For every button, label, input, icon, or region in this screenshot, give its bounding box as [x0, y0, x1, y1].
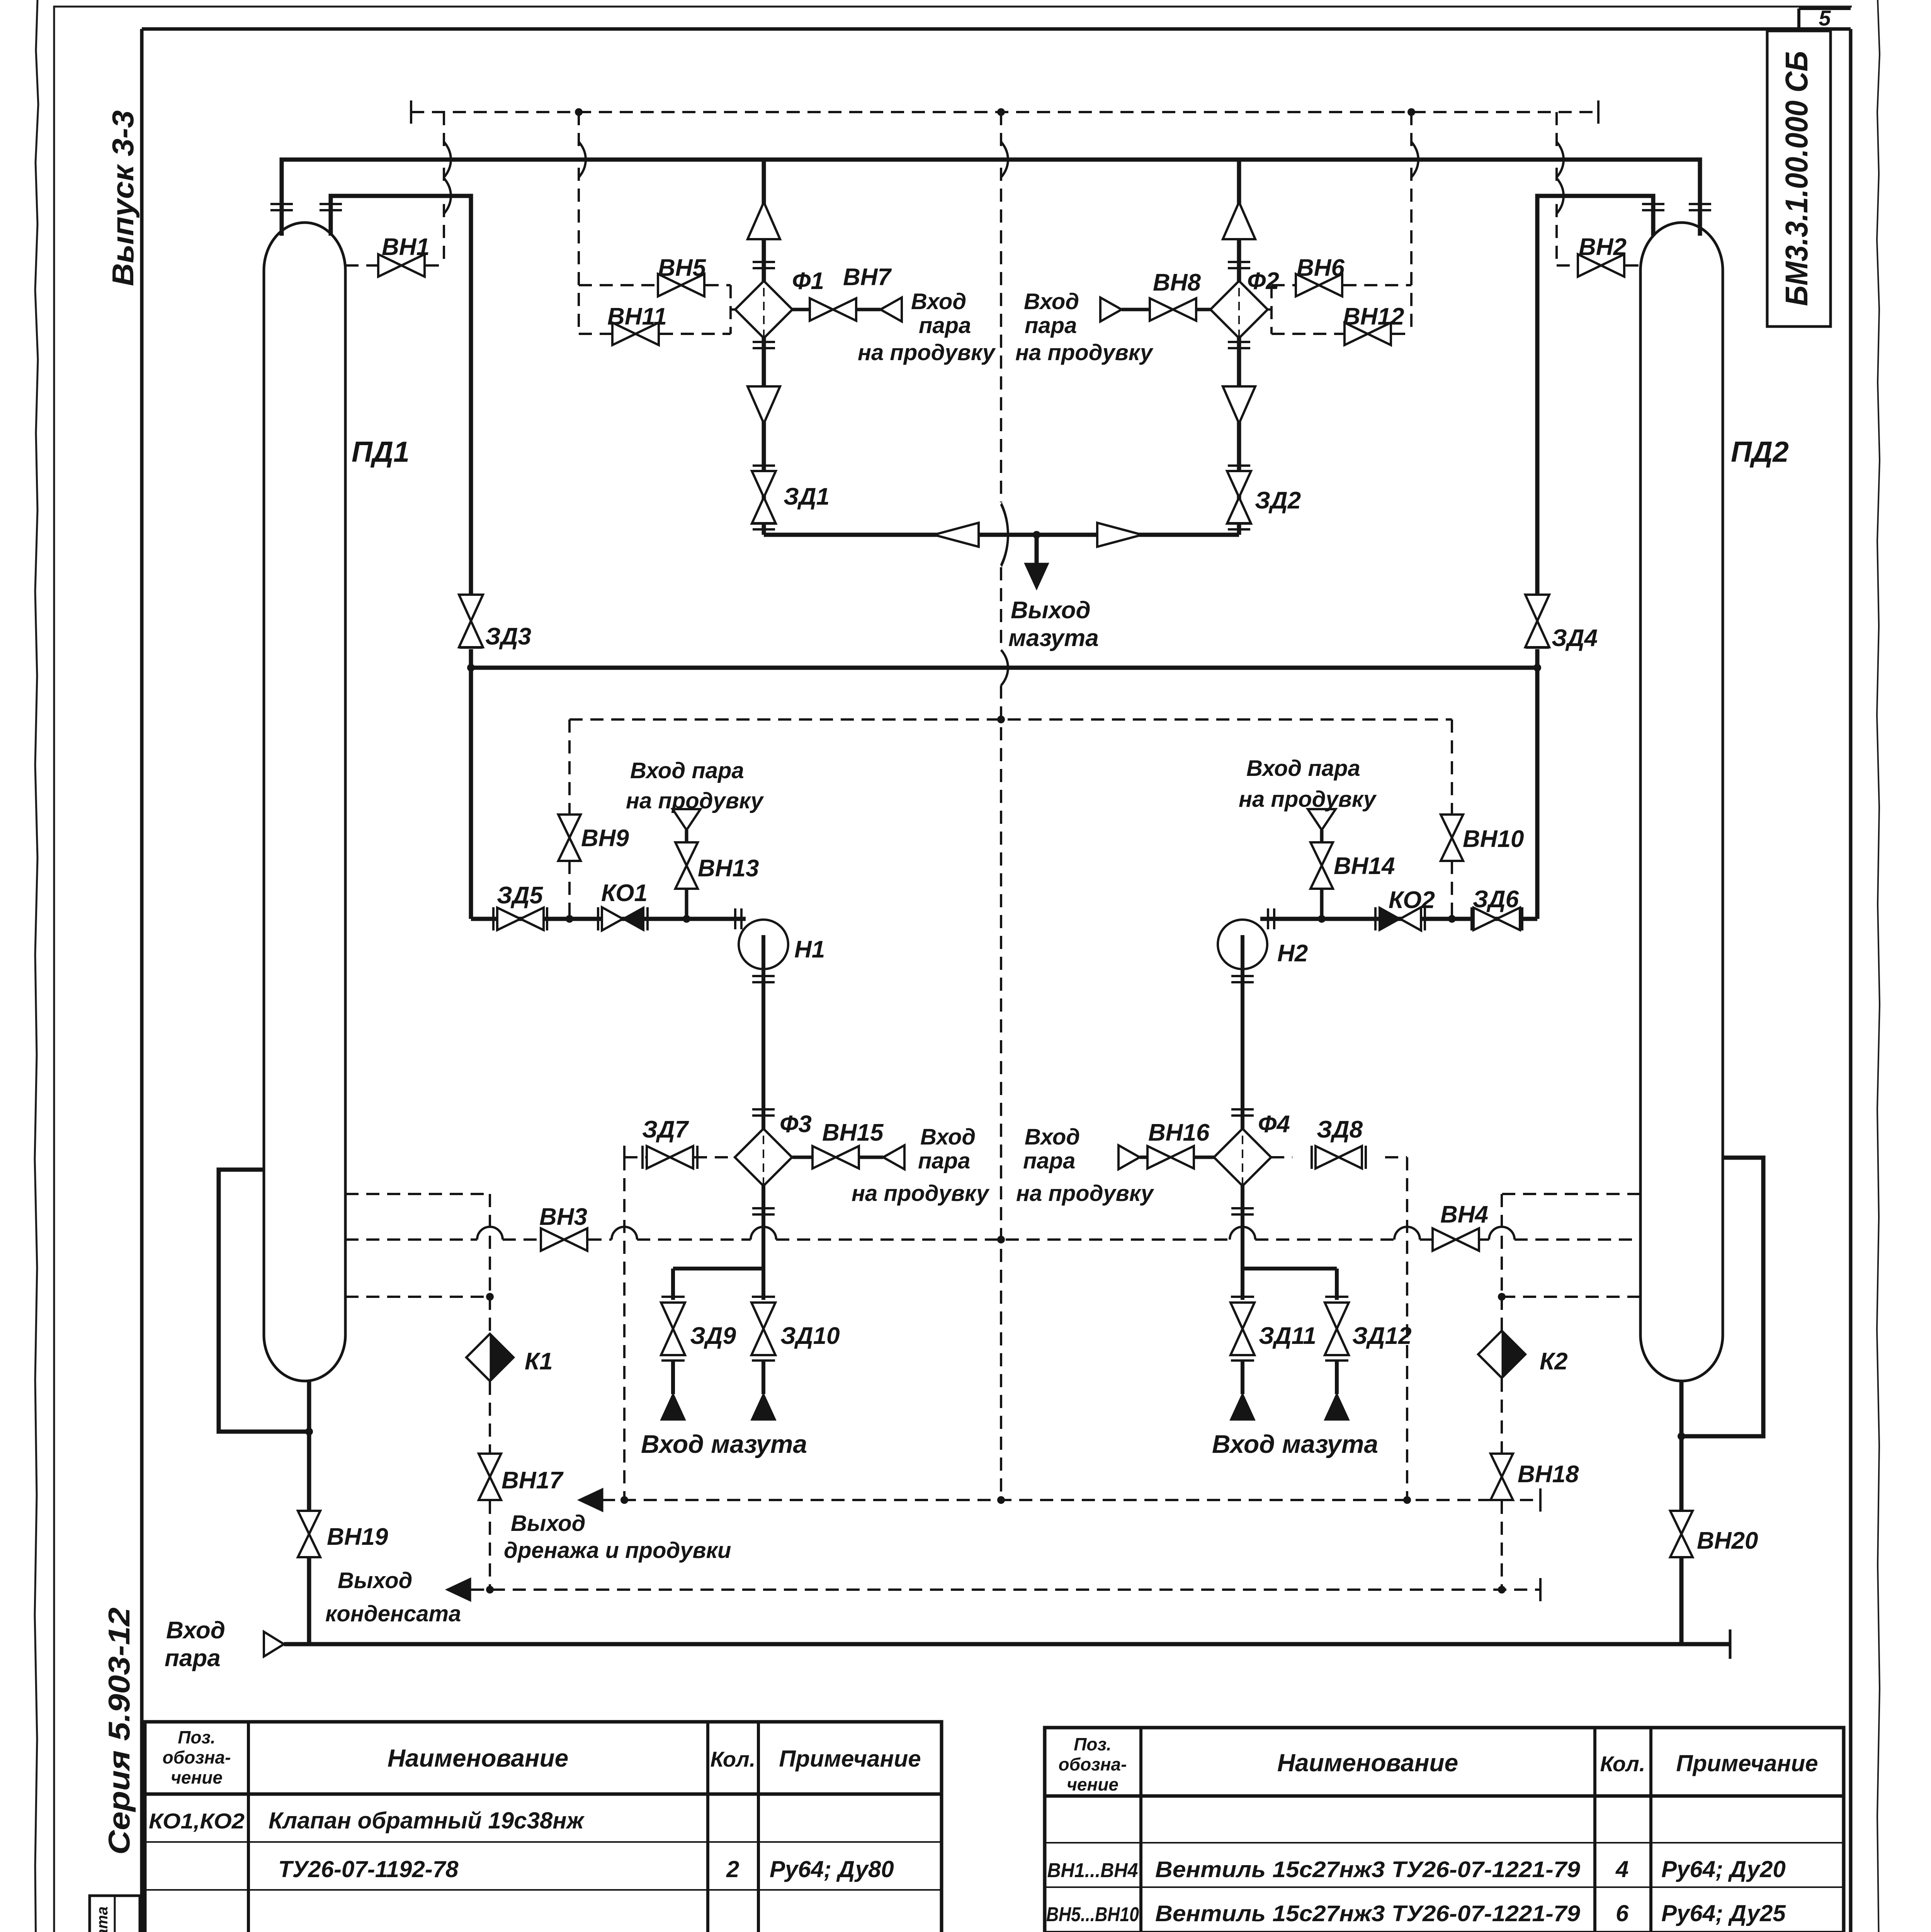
valve ВН14 with purge funnel — [1320, 830, 1324, 919]
node ПД1 recirc junction — [305, 1428, 313, 1435]
check valve КО1 — [598, 907, 598, 930]
svg-text:ВН9: ВН9 — [581, 825, 629, 852]
wire ВН19 to steam line — [307, 1557, 311, 1644]
flange pump Н2 suction — [1268, 908, 1274, 929]
valve ВН18 — [1491, 1454, 1513, 1500]
wire ЗД8 purge line y=2995 — [1271, 1156, 1407, 1158]
svg-text:Ру64; Ду20: Ру64; Ду20 — [1661, 1856, 1786, 1882]
valve ВН12 — [1345, 323, 1391, 345]
svg-text:ЗД8: ЗД8 — [1317, 1116, 1363, 1143]
node ВН13 tap — [683, 915, 690, 923]
svg-text:Н1: Н1 — [794, 936, 825, 963]
svg-text:ВН2: ВН2 — [1579, 234, 1627, 260]
wire pump Н2 suction y=2378 — [1260, 917, 1537, 921]
wire condensate line y=4114 — [471, 1588, 1540, 1591]
valve ВН16 — [1140, 1156, 1214, 1159]
svg-text:на продувку: на продувку — [1016, 1181, 1154, 1206]
svg-text:Примечание: Примечание — [779, 1746, 921, 1772]
valve ВН13 with purge funnel — [685, 830, 688, 919]
gate valve ЗД3 with flanges — [459, 595, 483, 595]
flange above Ф1 — [753, 262, 775, 268]
flange Н2 discharge — [1231, 976, 1254, 982]
svg-text:ВН17: ВН17 — [501, 1467, 564, 1494]
svg-text:Кол.: Кол. — [1600, 1752, 1645, 1776]
valve ВН6 — [1296, 274, 1342, 296]
svg-text:Вентиль 15с27нж3 ТУ26-07-1221-: Вентиль 15с27нж3 ТУ26-07-1221-79 — [1155, 1901, 1580, 1926]
svg-text:обозна-: обозна- — [163, 1747, 231, 1767]
flange above ЗД1 — [753, 466, 775, 472]
vessel ПД2 — [1640, 223, 1723, 1381]
flange above Ф2 — [1228, 262, 1250, 268]
wire drain line y=3882 — [602, 1499, 1540, 1501]
svg-text:Ф2: Ф2 — [1247, 268, 1279, 294]
svg-text:ВН20: ВН20 — [1697, 1527, 1758, 1554]
check valve КО2 — [1375, 907, 1376, 930]
svg-text:Вход мазута: Вход мазута — [1212, 1430, 1378, 1458]
wire Ф2 bypass drop x=3653 — [1410, 112, 1413, 334]
svg-text:ВН4: ВН4 — [1440, 1201, 1488, 1228]
arrow steam purge inlet Ф4 — [1118, 1145, 1140, 1169]
node header right — [1533, 664, 1541, 672]
svg-text:ВН14: ВН14 — [1334, 853, 1395, 879]
svg-text:5: 5 — [1819, 6, 1831, 30]
gate valve ЗД6 with flanges — [1471, 907, 1472, 930]
wire Ф4 column to inlet branch — [1243, 1184, 1337, 1300]
valve ВН4 — [1433, 1228, 1479, 1251]
hump blowdown over Ф3 column — [751, 1227, 776, 1240]
flange ПД1 left nozzle — [270, 204, 293, 210]
node drain x=3642 — [1403, 1496, 1411, 1504]
filter Ф4 — [1214, 1122, 1271, 1193]
node ВН14 tap — [1318, 915, 1326, 923]
flange below ЗД12 — [1325, 1360, 1348, 1361]
svg-text:Вход: Вход — [1025, 1124, 1080, 1150]
node outlet junction — [1033, 531, 1040, 539]
node pump purge manifold centre — [997, 716, 1005, 723]
svg-text:К1: К1 — [525, 1348, 553, 1375]
svg-text:Выход: Выход — [511, 1511, 586, 1536]
filter Ф3 — [735, 1122, 792, 1193]
wire ВН10 drop — [1451, 719, 1453, 919]
svg-text:Кол.: Кол. — [711, 1747, 756, 1771]
node condensate x=1268 — [486, 1586, 494, 1594]
arrow steam purge inlet Ф3 — [883, 1145, 904, 1169]
wire Ф2 bypass upper y=738 — [1271, 284, 1411, 286]
jog centre riser crossings — [1001, 142, 1008, 177]
svg-text:Выход: Выход — [338, 1568, 413, 1593]
svg-text:пара: пара — [165, 1645, 221, 1672]
filter Ф2 — [1210, 274, 1268, 345]
wire pump Н1 suction y=2378 — [471, 917, 746, 921]
svg-text:Ф3: Ф3 — [780, 1111, 812, 1138]
flange below Ф3 — [752, 1208, 775, 1214]
valve ВН10 — [1441, 815, 1463, 861]
jog Ф1 bypass drop — [579, 142, 586, 177]
flange ПД2 right nozzle — [1689, 204, 1711, 210]
arrow mazut inlet ЗД10 — [751, 1393, 776, 1420]
svg-text:ВН10: ВН10 — [1463, 826, 1524, 852]
flange Н1 discharge — [752, 976, 775, 982]
svg-text:ВН8: ВН8 — [1153, 269, 1201, 296]
wire ЗД11 inlet stub — [1241, 1362, 1244, 1394]
flange above ЗД11 — [1231, 1296, 1254, 1297]
wire ВН20 to steam line — [1679, 1557, 1684, 1644]
torn paper left edge — [35, 0, 38, 1932]
arrow mazut inlet ЗД11 — [1230, 1393, 1255, 1420]
svg-text:пара: пара — [918, 1148, 970, 1173]
svg-text:на продувку: на продувку — [626, 788, 764, 813]
wire ПД1 upper tap y=3090 — [345, 1194, 490, 1297]
svg-text:БМ3.3.1.00.000 СБ: БМ3.3.1.00.000 СБ — [1779, 51, 1814, 306]
flange below Ф2 — [1228, 342, 1250, 348]
wire ЗД7 purge line y=2995 — [624, 1156, 735, 1158]
svg-text:ВН5...ВН10: ВН5...ВН10 — [1046, 1903, 1139, 1926]
node К2 tap — [1498, 1293, 1506, 1301]
wire centre purge riser x=2591 — [1000, 112, 1002, 1500]
gate valve ЗД11 — [1231, 1303, 1254, 1355]
svg-text:ЗД9: ЗД9 — [690, 1323, 736, 1349]
flange above ЗД10 — [752, 1296, 775, 1297]
valve ВН3 — [541, 1228, 587, 1251]
wire purge steam manifold y=290 — [411, 111, 1598, 113]
jog ВН1 drop over manifolds — [444, 142, 451, 177]
hump blowdown over Ф4 column — [1230, 1227, 1255, 1240]
steam trap К1 — [466, 1334, 513, 1381]
node drain x=1616 — [620, 1496, 628, 1504]
node blowdown centre — [997, 1236, 1005, 1243]
svg-text:чение: чение — [1067, 1774, 1118, 1794]
wire ЗД7 drain drop x=1616 — [623, 1157, 626, 1500]
wire ЗД3 riser lower — [469, 649, 473, 919]
node drain centre — [997, 1496, 1005, 1504]
node header left — [467, 664, 475, 672]
wire ЗД9 inlet stub — [671, 1362, 675, 1394]
svg-text:ВН6: ВН6 — [1297, 255, 1345, 281]
svg-text:Вход: Вход — [920, 1124, 976, 1150]
wire Ф1 column upper — [762, 160, 766, 284]
gate valve ЗД7 — [642, 1146, 643, 1169]
valve ВН9 — [558, 815, 581, 861]
svg-text:конденсата: конденсата — [325, 1601, 461, 1626]
document stamp box top right — [1767, 31, 1831, 327]
svg-text:мазута: мазута — [1008, 625, 1099, 651]
svg-text:ВН1...ВН4: ВН1...ВН4 — [1047, 1859, 1138, 1882]
right parts table grid — [1045, 1728, 1844, 1932]
svg-text:Ру64; Ду25: Ру64; Ду25 — [1661, 1900, 1786, 1926]
flange below ЗД10 — [752, 1360, 775, 1361]
arrow Выход мазута — [1024, 563, 1049, 590]
flow arrow down on Ф1 column — [748, 386, 780, 423]
svg-text:ВН11: ВН11 — [607, 303, 667, 330]
flange below ЗД11 — [1231, 1360, 1254, 1361]
hump blowdown over ЗД8 drop — [1394, 1227, 1420, 1240]
valve ВН19 — [298, 1511, 320, 1557]
svg-text:Поз.: Поз. — [178, 1727, 215, 1747]
flange above ЗД9 — [661, 1296, 685, 1297]
svg-text:Вход пара: Вход пара — [630, 758, 744, 783]
wire suction header y=1728 — [471, 666, 1537, 670]
svg-text:на продувку: на продувку — [858, 340, 996, 365]
svg-text:Вход: Вход — [1024, 289, 1079, 314]
tick steam line end — [1729, 1629, 1732, 1659]
flange above ЗД2 — [1228, 466, 1250, 472]
svg-text:Вентиль 15с27нж3 ТУ26-07-1221-: Вентиль 15с27нж3 ТУ26-07-1221-79 — [1155, 1857, 1580, 1882]
svg-text:Клапан обратный 19с38нж: Клапан обратный 19с38нж — [269, 1808, 585, 1833]
svg-text:пара: пара — [1025, 313, 1077, 338]
wire Ф1 bypass right riser — [731, 285, 735, 334]
svg-text:на продувку: на продувку — [1239, 787, 1377, 812]
wire ВН9 drop — [568, 719, 571, 919]
wire Ф2 column upper — [1237, 160, 1241, 284]
wire ВН1 drop x=1149 — [345, 112, 444, 265]
wire Ф3 column to inlet branch — [673, 1184, 763, 1300]
flange above Ф4 — [1231, 1109, 1254, 1116]
svg-text:Серия 5.903-12: Серия 5.903-12 — [102, 1607, 136, 1855]
svg-text:пара: пара — [919, 313, 971, 338]
svg-text:Примечание: Примечание — [1676, 1750, 1818, 1776]
flange ПД2 left nozzle — [1642, 204, 1664, 210]
wire top mazut manifold y=413 — [282, 160, 1700, 236]
gate valve ЗД9 — [661, 1303, 685, 1355]
valve ВН5 — [658, 274, 704, 296]
flow arrow right on outlet line — [1097, 523, 1142, 547]
wire ПД1 bottom drain — [307, 1381, 311, 1512]
svg-text:ЗД3: ЗД3 — [485, 623, 531, 650]
valve ВН7 — [792, 308, 881, 311]
wire Ф1 bypass drop x=1498 — [578, 112, 580, 334]
flange below ЗД1 — [753, 523, 775, 529]
gate valve ЗД5 with flanges — [493, 907, 494, 930]
svg-text:6: 6 — [1616, 1900, 1629, 1926]
svg-text:Ф1: Ф1 — [792, 268, 824, 294]
flange above ЗД12 — [1325, 1296, 1348, 1297]
svg-text:ВН19: ВН19 — [327, 1524, 388, 1550]
svg-text:ЗД10: ЗД10 — [780, 1323, 840, 1349]
svg-text:ВН16: ВН16 — [1148, 1119, 1210, 1146]
svg-text:Выход: Выход — [1011, 597, 1091, 624]
arrow steam purge inlet Ф2 — [1100, 298, 1122, 321]
wire ПД2 left outlet to ЗД4 riser — [1537, 196, 1653, 594]
arrow steam inlet — [264, 1632, 284, 1656]
svg-text:на продувку: на продувку — [852, 1181, 990, 1206]
svg-text:пара: пара — [1023, 1148, 1075, 1173]
node purge manifold x=2591 — [997, 108, 1005, 116]
wire ПД1 lower tap y=3356 — [345, 1296, 490, 1298]
wire blowdown line y=3208 — [345, 1238, 1640, 1241]
arrow drain outlet — [578, 1488, 603, 1512]
svg-text:ВН18: ВН18 — [1518, 1461, 1579, 1488]
svg-text:Вход мазута: Вход мазута — [641, 1430, 807, 1458]
svg-text:Н2: Н2 — [1277, 940, 1308, 967]
wire К2 drop — [1501, 1297, 1503, 1590]
svg-text:ВН7: ВН7 — [843, 264, 892, 291]
flow arrow up on Ф2 column — [1223, 202, 1255, 239]
valve ВН17 — [479, 1454, 501, 1500]
svg-text:Вход: Вход — [911, 289, 966, 314]
wire Ф1 column lower — [762, 336, 766, 535]
svg-text:2: 2 — [726, 1856, 739, 1882]
svg-text:Вход: Вход — [166, 1617, 225, 1644]
node purge manifold x=1498 — [575, 108, 583, 116]
steam trap К2 — [1478, 1331, 1525, 1378]
valve ВН20 — [1670, 1511, 1693, 1557]
svg-text:КО2: КО2 — [1389, 887, 1435, 913]
valve ВН2 — [1578, 254, 1624, 277]
wire ПД2 recirculation loop — [1681, 1158, 1763, 1436]
valve ВН11 — [612, 323, 659, 345]
wire Ф2 bypass lower y=864 — [1271, 333, 1411, 335]
node condensate x=3887 — [1498, 1586, 1506, 1594]
svg-text:ВН5: ВН5 — [658, 255, 707, 281]
gate valve ЗД8 — [1311, 1146, 1312, 1169]
flange pump Н1 suction — [735, 908, 741, 929]
svg-text:Ф4: Ф4 — [1258, 1111, 1290, 1138]
hump blowdown over К1 riser — [477, 1227, 503, 1240]
svg-text:ВН1: ВН1 — [382, 234, 430, 260]
tick ЗД7 line end — [624, 1146, 625, 1169]
wire ЗД4 riser lower — [1535, 649, 1540, 919]
svg-text:Поз.: Поз. — [1074, 1734, 1111, 1754]
svg-text:Ру64; Ду80: Ру64; Ду80 — [770, 1856, 894, 1882]
wire ЗД10 inlet stub — [762, 1362, 765, 1394]
pump Н2 — [1218, 920, 1267, 969]
svg-text:4: 4 — [1615, 1856, 1628, 1882]
pump Н1 — [739, 920, 788, 969]
filter Ф1 — [735, 274, 792, 345]
node ПД2 recirc junction — [1678, 1432, 1685, 1440]
vessel ПД1 — [264, 223, 345, 1381]
svg-text:на продувку: на продувку — [1015, 340, 1154, 365]
svg-text:чение: чение — [171, 1767, 223, 1787]
wire ПД2 upper tap y=3090 — [1502, 1194, 1640, 1297]
wire Ф1 bypass upper y=738 — [579, 284, 731, 286]
svg-text:КО1,КО2: КО1,КО2 — [149, 1809, 245, 1833]
wire К1 drop — [489, 1297, 491, 1590]
arrow mazut inlet ЗД12 — [1324, 1393, 1350, 1420]
svg-text:обозна-: обозна- — [1059, 1754, 1127, 1774]
valve ВН15 — [792, 1156, 883, 1159]
tick purge manifold right end — [1598, 100, 1599, 124]
flow arrow down on Ф2 column — [1223, 386, 1255, 423]
arrow steam purge inlet Ф1 — [881, 298, 902, 321]
wire Ф2 bypass left riser — [1268, 285, 1271, 334]
svg-text:ВН13: ВН13 — [698, 855, 759, 882]
hump blowdown over ЗД7 drop — [612, 1227, 637, 1240]
torn paper right edge — [1877, 0, 1880, 1932]
left margin stamp column — [90, 1896, 140, 1932]
svg-text:ЗД4: ЗД4 — [1552, 625, 1598, 651]
jog Ф2 bypass drop — [1411, 142, 1418, 177]
flange above Ф3 — [752, 1109, 775, 1116]
svg-text:Наименование: Наименование — [1277, 1749, 1458, 1777]
svg-text:КО1: КО1 — [601, 880, 648, 906]
sheet number box 5 — [1799, 9, 1851, 29]
wire ПД2 bottom drain — [1679, 1381, 1684, 1512]
wire Ф1 bypass lower y=864 — [579, 333, 731, 335]
svg-text:ВН3: ВН3 — [539, 1204, 587, 1230]
wire ПД1 right outlet to ЗД3 riser — [331, 196, 471, 594]
node ВН9 tap — [566, 915, 573, 923]
wire ВН2 drop x=4029 — [1557, 112, 1640, 265]
tick condensate end — [1540, 1578, 1541, 1601]
svg-text:ТУ26-07-1192-78: ТУ26-07-1192-78 — [278, 1856, 459, 1882]
svg-text:ВН12: ВН12 — [1343, 303, 1404, 330]
svg-text:Выпуск 3-3: Выпуск 3-3 — [106, 111, 140, 286]
node ВН10 tap — [1448, 915, 1456, 923]
svg-text:ЗД2: ЗД2 — [1255, 487, 1301, 514]
hump blowdown over К2 riser — [1489, 1227, 1515, 1240]
svg-text:ПД1: ПД1 — [352, 435, 410, 468]
wire Н1 discharge — [762, 935, 765, 1129]
flange below ЗД9 — [661, 1360, 685, 1361]
flow arrow left on outlet line — [934, 523, 979, 547]
svg-text:Вход пара: Вход пара — [1246, 756, 1360, 781]
svg-text:Наименование: Наименование — [388, 1744, 568, 1772]
node purge manifold x=3653 — [1407, 108, 1415, 116]
wire outlet stem down — [1035, 535, 1039, 563]
wire Н2 discharge — [1241, 935, 1244, 1129]
wire ЗД8 drain drop x=3642 — [1406, 1157, 1408, 1500]
gate valve ЗД2 — [1227, 471, 1251, 524]
gate valve ЗД1 — [752, 471, 776, 524]
flange ПД1 right nozzle — [320, 204, 342, 210]
svg-text:ЗД1: ЗД1 — [784, 483, 830, 510]
wire ЗД12 inlet stub — [1335, 1362, 1339, 1394]
wire steam line y=4255 — [284, 1642, 1730, 1646]
svg-text:ВН15: ВН15 — [822, 1119, 884, 1146]
flange below ЗД2 — [1228, 523, 1250, 529]
wire pump purge manifold y=1862 — [569, 718, 1452, 721]
svg-text:ЗД12: ЗД12 — [1352, 1323, 1412, 1349]
wire ПД2 lower tap y=3356 — [1502, 1296, 1640, 1298]
wire Ф2 column lower — [1237, 336, 1241, 535]
gate valve ЗД4 with flanges — [1526, 595, 1549, 595]
valve ВН1 — [378, 254, 425, 277]
wire ПД1 recirculation loop — [219, 1170, 309, 1432]
wire mazut outlet line y=1384 — [764, 533, 1239, 537]
gate valve ЗД10 — [751, 1303, 775, 1355]
svg-text:ЗД11: ЗД11 — [1259, 1323, 1316, 1349]
node К1 tap — [486, 1293, 494, 1301]
left parts table grid — [145, 1722, 942, 1932]
tick purge manifold left end — [411, 100, 411, 124]
tick drain end — [1540, 1488, 1541, 1512]
arrow condensate outlet — [445, 1578, 471, 1602]
flow arrow up on Ф1 column — [748, 202, 780, 239]
svg-text:К2: К2 — [1540, 1348, 1568, 1375]
svg-text:ЗД6: ЗД6 — [1473, 886, 1519, 913]
svg-text:ПД2: ПД2 — [1731, 435, 1789, 468]
flange below Ф1 — [753, 342, 775, 348]
svg-text:Подпись и дата: Подпись и дата — [94, 1906, 111, 1932]
gate valve ЗД12 — [1325, 1303, 1349, 1355]
flange below Ф4 — [1231, 1208, 1254, 1214]
svg-text:ЗД7: ЗД7 — [642, 1116, 689, 1143]
valve ВН8 — [1122, 308, 1210, 311]
arrow mazut inlet ЗД9 — [660, 1393, 686, 1420]
svg-text:дренажа и продувки: дренажа и продувки — [504, 1538, 731, 1563]
svg-text:ЗД5: ЗД5 — [497, 882, 544, 909]
jog ВН2 drop over manifolds — [1557, 142, 1564, 177]
